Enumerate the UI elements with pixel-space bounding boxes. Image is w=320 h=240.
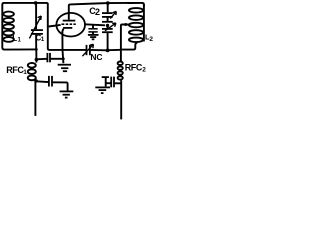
terminal +B bar [102, 77, 109, 86]
svg-text:1: 1 [23, 69, 27, 76]
capacitor split-stator (below C2) [102, 18, 116, 51]
svg-text:1: 1 [41, 37, 45, 43]
label C1 [36, 34, 45, 43]
capacitor grid coupling [36, 53, 63, 62]
wire grid-tank loop (top rail, left rail, bottom wire) [2, 3, 48, 50]
wire grid lead (right) [85, 24, 105, 25]
neutralizing capacitor NC [82, 44, 106, 56]
capacitor grid bypass (top) [88, 25, 97, 35]
wire NC junction to L2 tap line [108, 49, 121, 51]
inductor L2 + right rail [121, 4, 144, 50]
RFC2 choke [118, 50, 123, 120]
node dot (NC wire / C2 column) [106, 49, 110, 53]
ground (plate bypass) [95, 87, 110, 93]
svg-text:2: 2 [149, 36, 153, 43]
tube grid (dashes) [61, 23, 75, 25]
node dot (tap on L2) [124, 23, 127, 26]
wire plate top run to right rail [69, 3, 144, 7]
svg-text:2: 2 [142, 66, 146, 73]
node dot (plate wire / C2 top) [106, 1, 110, 5]
tube plate [63, 5, 76, 20]
node dot (RFC1 bottom) [34, 79, 38, 83]
node dot (coupling junction) [35, 58, 39, 62]
wire L2 tap [121, 25, 129, 50]
tube cathode [62, 28, 72, 63]
label NC [90, 52, 102, 62]
svg-text:NC: NC [90, 52, 102, 62]
node dot (grid wire / split cap) [106, 24, 109, 27]
label RFC2 [125, 62, 147, 73]
svg-text:RFC: RFC [125, 62, 143, 72]
tube V1 envelope [56, 13, 85, 37]
capacitor plate bypass [106, 77, 122, 88]
label L2 [145, 33, 153, 43]
label C2 [89, 6, 100, 17]
wire grid feed vertical + NC run [48, 3, 86, 50]
wire RFC1 to bottom edge [34, 81, 36, 116]
capacitor C2 (variable) [102, 3, 116, 19]
wire grid lead (left) [49, 25, 61, 27]
capacitor cathode bypass (lower) [36, 76, 67, 91]
svg-text:1: 1 [18, 37, 22, 43]
label L1 [12, 34, 21, 44]
wire tank bottom to coupling junction [35, 49, 37, 59]
node dot (top of C1) [34, 1, 38, 5]
RFC1 choke [28, 60, 37, 81]
svg-text:RFC: RFC [6, 65, 24, 75]
capacitor C1 (variable) [29, 3, 43, 50]
inductor L1 [3, 12, 14, 42]
ground (lower center) [60, 91, 74, 97]
node small dot (NC wire / cathode line crossing) [62, 49, 64, 51]
label RFC1 [6, 65, 27, 76]
node dot (cathode line / coupling wire) [62, 57, 65, 60]
node dot (tank bottom junction) [35, 48, 38, 51]
ground (cathode) [58, 65, 71, 72]
ground (grid bypass) [88, 35, 99, 39]
svg-text:2: 2 [95, 7, 100, 17]
